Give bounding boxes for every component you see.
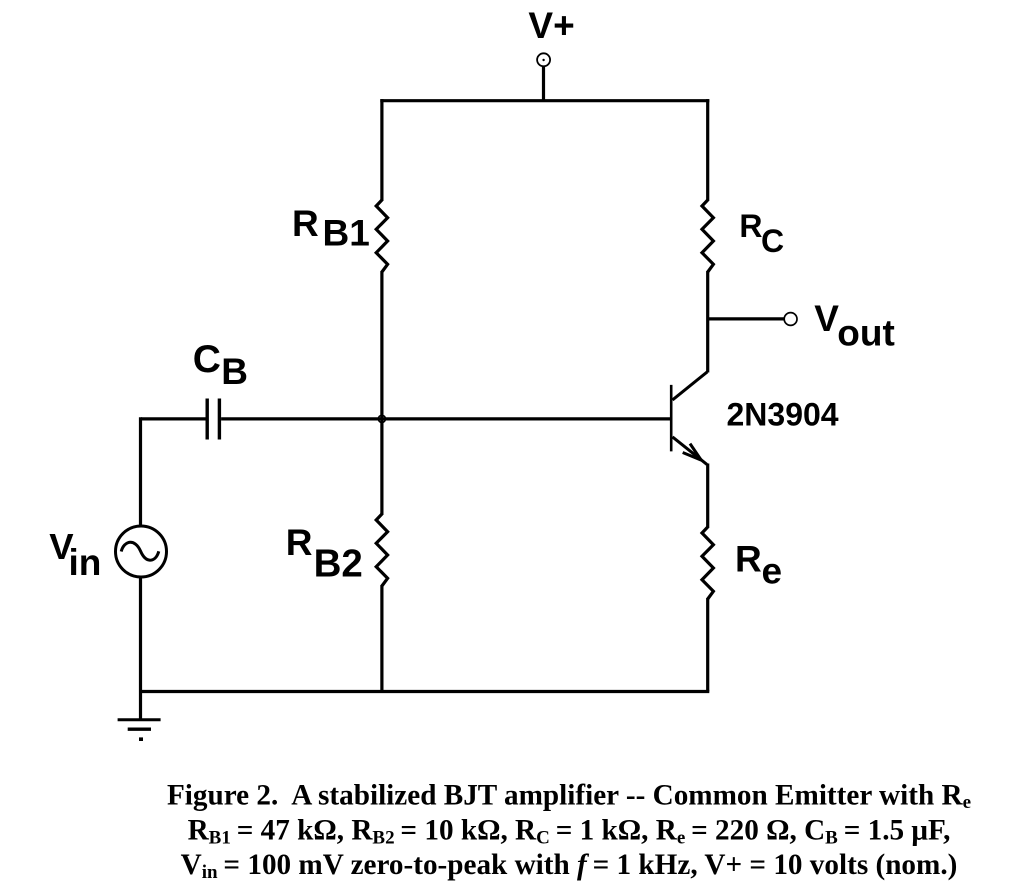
svg-text:R: R [735,539,762,580]
wire V+ stub [542,66,545,102]
wire Vout tap [708,317,785,320]
svg-text:in: in [69,542,102,583]
svg-text:Figure 2. A stabilized BJT am: Figure 2. A stabilized BJT amplifier -- … [167,779,971,813]
svg-text:C: C [761,223,784,259]
wire collector rail [706,271,709,373]
wire right rail lower [706,598,709,692]
svg-text:R: R [739,208,762,244]
svg-text:B2: B2 [314,543,363,586]
svg-text:V+: V+ [528,5,574,46]
svg-text:B: B [221,351,248,392]
junction node base divider [378,415,385,422]
svg-text:C: C [193,338,221,381]
resistor Re [702,527,713,599]
emitter lead [673,437,707,465]
base bar [670,385,673,452]
collector lead [673,372,708,400]
wire left rail middle [380,271,383,515]
terminal circle V+ [537,53,550,66]
emitter arrow [690,444,701,461]
ground [118,720,161,740]
wire base right segment [221,417,671,420]
wire top rail [380,99,709,102]
wire right rail upper [706,99,709,201]
wire Vin top [139,417,142,526]
transistor Q1 2N3904 [671,372,707,465]
svg-text:R: R [292,203,319,244]
wire left rail lower [380,585,383,692]
wire base left segment [141,417,206,420]
wire emitter rail [706,464,709,529]
wire bottom rail [139,690,709,693]
source Vin [116,526,167,577]
resistor RC [702,200,713,272]
svg-text:2N3904: 2N3904 [727,396,839,432]
svg-text:B1: B1 [323,212,370,253]
resistor RB2 [376,514,387,586]
resistor RB1 [376,200,387,272]
svg-text:R: R [286,522,313,563]
svg-text:Vin = 100 mV zero-to-peak with: Vin = 100 mV zero-to-peak with f = 1 kHz… [181,849,958,883]
capacitor CB [205,399,208,440]
wire Vin bottom [139,577,142,692]
svg-text:e: e [762,551,783,592]
wire left rail upper [380,99,383,201]
terminal circle Vout [784,313,797,326]
sine wave [121,542,159,560]
svg-text:V: V [814,298,839,339]
svg-text:out: out [837,313,895,354]
wire ground stem [139,692,142,720]
